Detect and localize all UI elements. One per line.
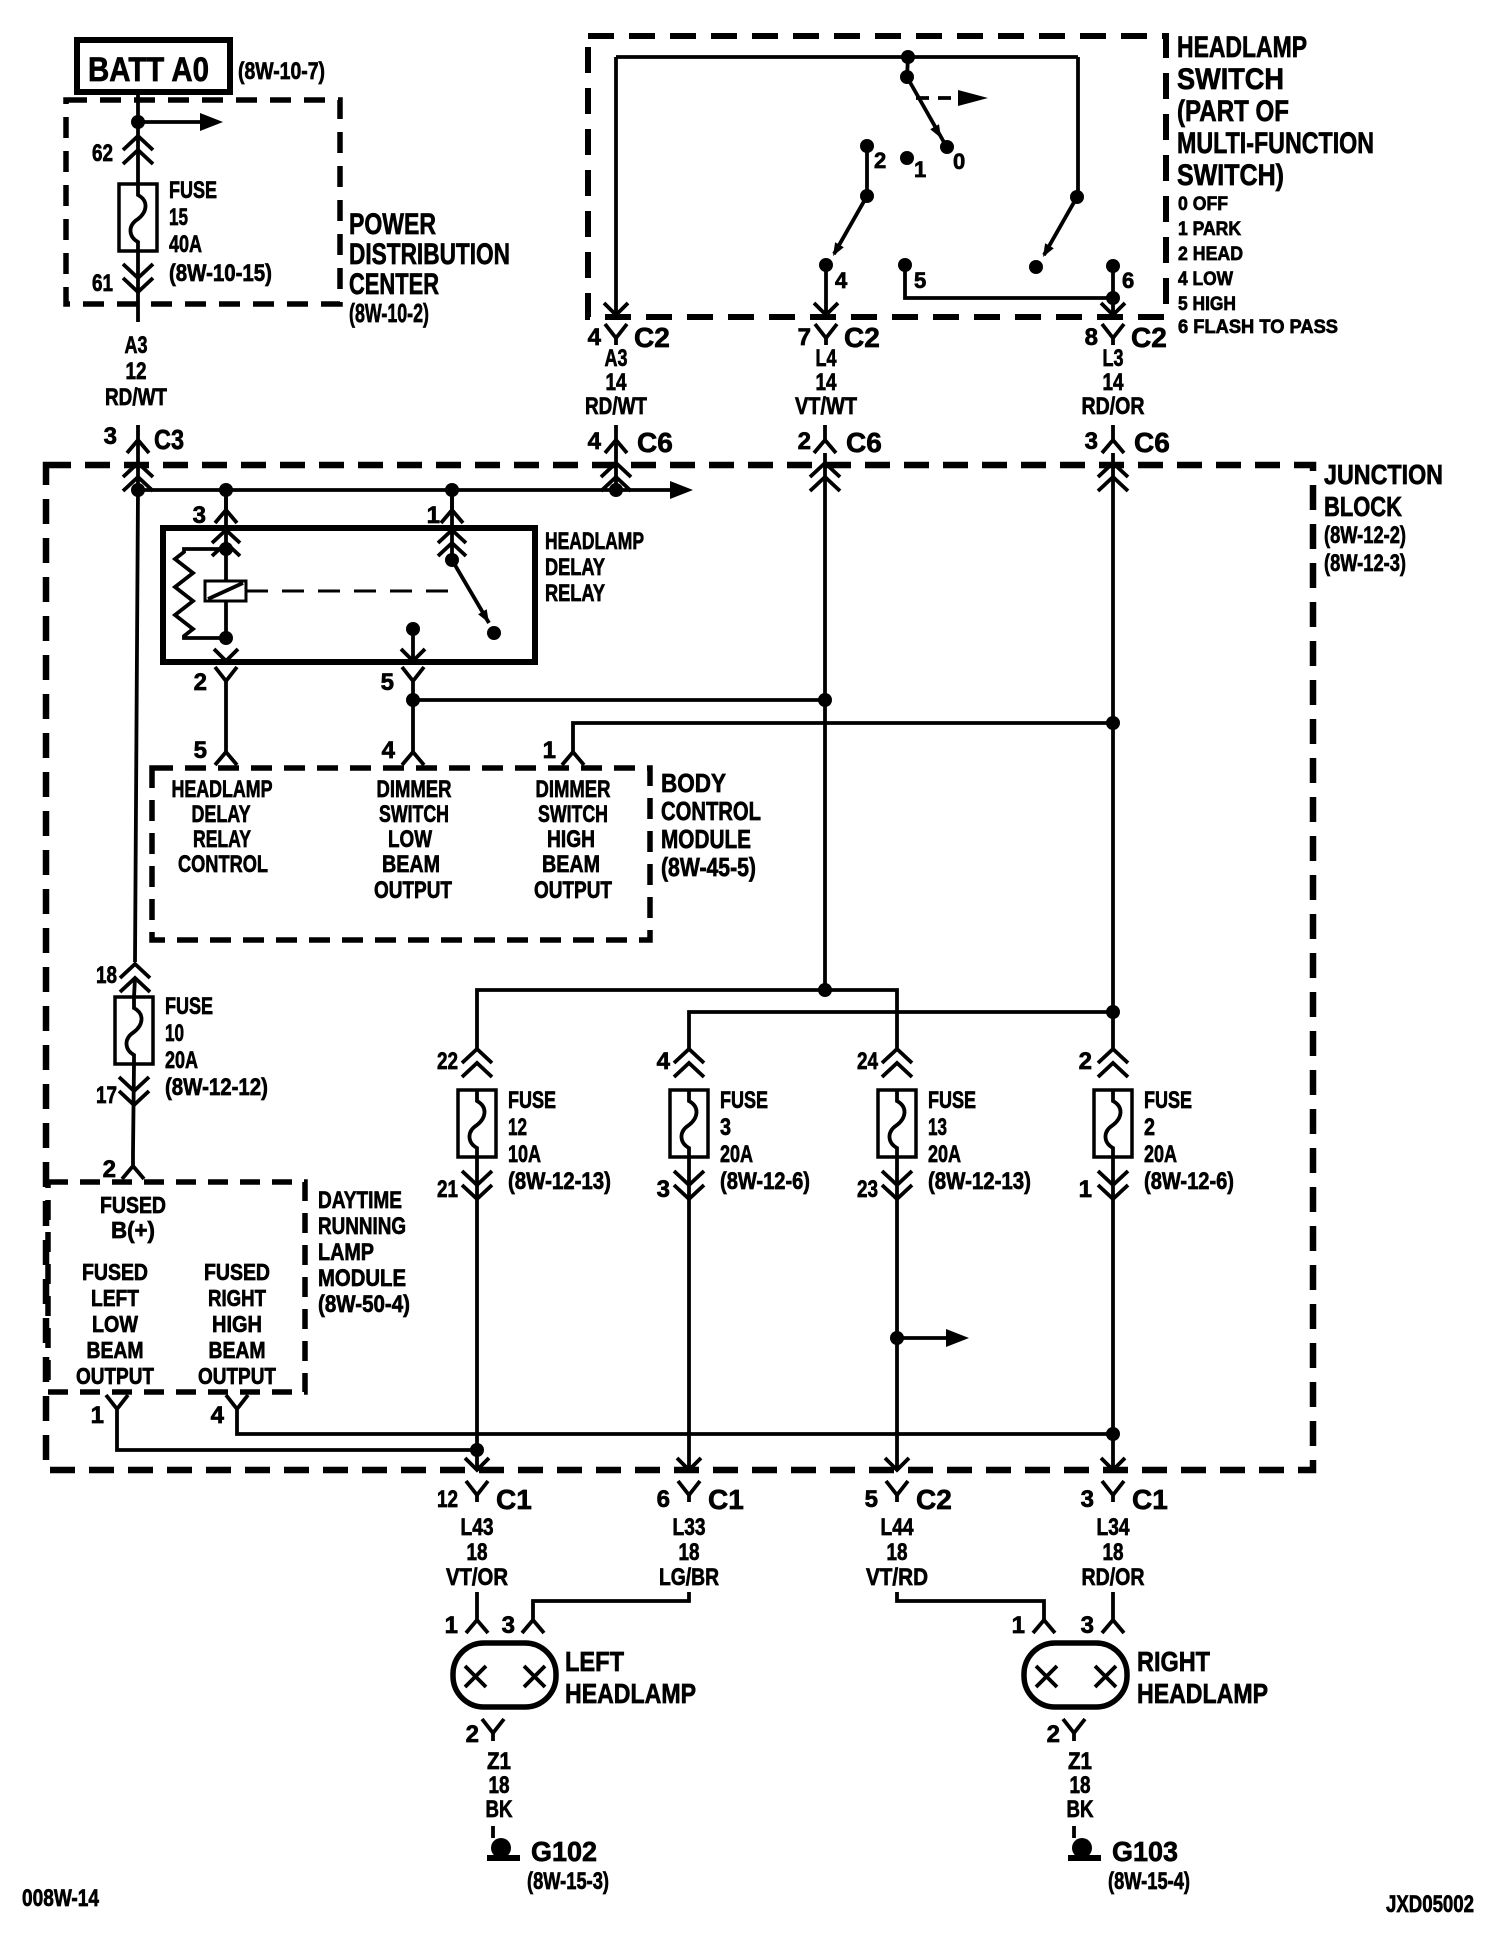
svg-text:(8W-10-2): (8W-10-2)	[349, 298, 429, 328]
svg-text:LOW: LOW	[388, 826, 432, 853]
svg-text:(8W-10-7): (8W-10-7)	[238, 58, 325, 85]
fuse 3	[670, 1090, 708, 1157]
svg-text:L43: L43	[461, 1514, 494, 1541]
svg-text:5: 5	[381, 669, 394, 696]
fuse 3 pin 3	[657, 1171, 704, 1203]
fuse 2 pin 1	[1079, 1171, 1128, 1203]
svg-text:BK: BK	[1067, 1796, 1095, 1823]
fuse 13 value labels	[928, 1087, 1031, 1195]
svg-text:C6: C6	[637, 427, 673, 458]
svg-text:C2: C2	[634, 322, 670, 353]
svg-text:1: 1	[445, 1612, 458, 1639]
svg-text:20A: 20A	[1144, 1141, 1177, 1168]
svg-text:SWITCH: SWITCH	[1177, 63, 1284, 96]
svg-text:1: 1	[1079, 1176, 1092, 1203]
relay U1 headlamp delay relay box	[163, 528, 535, 662]
wire: bus drop to relay pin 3	[224, 490, 228, 528]
wire label Z1 18 BK left	[486, 1748, 514, 1823]
svg-text:(8W-12-12): (8W-12-12)	[165, 1074, 268, 1101]
wire: fuse 12 output down to C1	[475, 1157, 479, 1469]
svg-text:2: 2	[798, 428, 811, 455]
svg-text:JUNCTION: JUNCTION	[1324, 459, 1443, 490]
relay contact dot normally open	[487, 626, 501, 640]
svg-text:23: 23	[857, 1176, 878, 1203]
wire label L3 14 RD/OR	[1082, 345, 1145, 420]
relay switch pivot dot	[445, 553, 459, 567]
svg-text:OUTPUT: OUTPUT	[374, 877, 452, 904]
svg-text:4: 4	[382, 737, 396, 764]
svg-text:L44: L44	[881, 1514, 915, 1541]
svg-text:BEAM: BEAM	[209, 1337, 266, 1363]
svg-text:L33: L33	[673, 1514, 706, 1541]
pin 18 chevrons up	[120, 964, 150, 992]
svg-text:C1: C1	[496, 1484, 532, 1515]
svg-text:3: 3	[104, 423, 117, 450]
relay pin 1 entry chevrons	[438, 530, 466, 556]
wire: stub to ground G102	[491, 1826, 495, 1838]
label HEADLAMP DELAY RELAY	[545, 528, 644, 607]
wire label L44 18 VT/RD	[866, 1514, 928, 1591]
left headlamp	[453, 1643, 556, 1707]
ground G103	[1068, 1838, 1101, 1858]
connector C2 pin 4	[588, 322, 670, 353]
node BATT A0	[77, 40, 230, 92]
wire: switch common feed top bus	[616, 55, 1078, 59]
svg-text:20A: 20A	[720, 1141, 753, 1168]
arrow: switch travel direction	[916, 90, 988, 106]
relay pin 3 entry chevrons	[212, 530, 240, 556]
svg-text:5: 5	[914, 268, 926, 293]
svg-text:FUSED: FUSED	[100, 1192, 166, 1218]
svg-text:1: 1	[543, 737, 556, 764]
junction dot battery feed	[131, 115, 145, 129]
svg-text:2: 2	[874, 148, 886, 173]
svg-text:MULTI-FUNCTION: MULTI-FUNCTION	[1177, 127, 1374, 160]
svg-text:14: 14	[1103, 369, 1125, 396]
svg-text:0 OFF: 0 OFF	[1178, 194, 1228, 215]
svg-text:BEAM: BEAM	[87, 1337, 144, 1363]
svg-text:LAMP: LAMP	[318, 1239, 374, 1266]
svg-text:G103: G103	[1112, 1836, 1178, 1867]
left headlamp pin 3 fork	[502, 1612, 544, 1639]
svg-text:18: 18	[887, 1539, 908, 1566]
switch wiper pivot dot	[900, 70, 914, 84]
svg-text:4: 4	[588, 324, 602, 351]
connector C6 pin 2	[798, 425, 882, 458]
wire: BCM pin 1 to C6 pin 3 drop	[573, 723, 1113, 738]
wire label A3 14 RD/WT	[585, 345, 647, 420]
svg-text:6: 6	[657, 1486, 670, 1513]
junction dot 5/6	[1106, 291, 1120, 305]
svg-text:RUNNING: RUNNING	[318, 1213, 406, 1240]
svg-text:OUTPUT: OUTPUT	[76, 1363, 154, 1389]
svg-text:RELAY: RELAY	[545, 580, 605, 607]
wire: low beam node to C6 pin 2 drop	[413, 698, 825, 702]
svg-text:(PART OF: (PART OF	[1177, 95, 1289, 128]
svg-text:(8W-12-13): (8W-12-13)	[508, 1168, 611, 1195]
svg-text:18: 18	[96, 962, 117, 989]
wire: C3 into junction block	[136, 440, 140, 490]
svg-text:2 HEAD: 2 HEAD	[1178, 244, 1243, 265]
svg-text:4: 4	[211, 1402, 225, 1429]
arrow at relay box edge pin 2	[214, 649, 238, 661]
wire: C6 pin 2 drop down	[823, 453, 827, 990]
junction dot bus at main feed	[131, 483, 145, 497]
fuse 13	[878, 1090, 916, 1157]
svg-text:20A: 20A	[928, 1141, 961, 1168]
fuse 12	[458, 1090, 496, 1157]
svg-text:1: 1	[91, 1402, 104, 1429]
contact 1 dot	[900, 151, 914, 165]
fuse 15 value labels	[169, 177, 272, 287]
svg-text:61: 61	[92, 270, 113, 297]
svg-text:1 PARK: 1 PARK	[1178, 219, 1241, 240]
svg-text:2: 2	[1144, 1114, 1155, 1141]
pin 62 chevrons up	[123, 136, 153, 164]
svg-text:40A: 40A	[169, 231, 202, 258]
wire: relay output to pin 5	[411, 629, 415, 661]
svg-text:RD/WT: RD/WT	[105, 384, 167, 411]
svg-text:4: 4	[588, 428, 602, 455]
svg-text:0: 0	[953, 149, 965, 174]
svg-text:HEADLAMP: HEADLAMP	[1137, 1678, 1268, 1709]
contact 5 dot	[898, 258, 912, 272]
relay switch arm	[452, 560, 489, 623]
wire: left drop to output 4	[614, 57, 618, 313]
svg-text:BLOCK: BLOCK	[1324, 491, 1402, 522]
svg-text:12: 12	[126, 358, 147, 385]
contact 6 dot	[1106, 259, 1120, 273]
svg-text:Z1: Z1	[487, 1748, 511, 1775]
relay coil element	[205, 581, 246, 601]
svg-text:RD/WT: RD/WT	[585, 393, 647, 420]
junction dot relay coil bottom	[219, 631, 233, 645]
wire: BATT A0 down into PDC to fuse 15	[136, 92, 140, 184]
arrow into box edge col 4	[604, 303, 628, 315]
svg-text:DISTRIBUTION: DISTRIBUTION	[349, 238, 510, 271]
svg-text:DELAY: DELAY	[192, 801, 251, 828]
svg-text:FUSE: FUSE	[508, 1087, 556, 1114]
wire: pivot stub	[907, 57, 908, 77]
right headlamp	[1024, 1643, 1127, 1707]
svg-text:(8W-12-3): (8W-12-3)	[1324, 550, 1406, 577]
svg-text:10A: 10A	[508, 1141, 541, 1168]
junction dot fuse 13 output tap	[890, 1331, 904, 1345]
wire: fuse 15 to connector C3	[136, 251, 140, 322]
wire: contact 6 down	[1111, 266, 1115, 313]
arrow at junction block edge col 3	[1101, 1458, 1125, 1470]
ground G102	[487, 1838, 520, 1858]
svg-text:(8W-12-2): (8W-12-2)	[1324, 522, 1406, 549]
connector C1 pin 6	[657, 1481, 744, 1515]
svg-text:VT/OR: VT/OR	[446, 1564, 508, 1591]
svg-text:(8W-10-15): (8W-10-15)	[169, 260, 272, 287]
DRL pin 2 fork	[103, 1152, 144, 1183]
junction dot high beam feed to fuses	[1106, 1005, 1120, 1019]
pin 61 chevrons down	[123, 264, 153, 292]
svg-text:(8W-45-5): (8W-45-5)	[661, 852, 756, 882]
wire: L44 jog to right headlamp pin 1	[897, 1592, 1044, 1620]
wire: into fuse 10	[134, 978, 135, 997]
svg-text:CENTER: CENTER	[349, 268, 439, 301]
svg-text:3: 3	[1085, 428, 1098, 455]
svg-text:RIGHT: RIGHT	[208, 1285, 266, 1311]
fuse 2 value labels	[1144, 1087, 1234, 1195]
svg-text:2: 2	[1047, 1721, 1060, 1748]
svg-text:B(+): B(+)	[111, 1217, 155, 1243]
fuse 2 pin 2	[1079, 1048, 1128, 1077]
svg-text:LOW: LOW	[92, 1311, 138, 1337]
svg-text:3: 3	[193, 502, 206, 529]
arrow at junction block edge col 6	[677, 1458, 701, 1470]
svg-text:(8W-15-3): (8W-15-3)	[527, 1868, 609, 1895]
svg-text:008W-14: 008W-14	[22, 1885, 100, 1912]
junction block entry chevrons at C3	[123, 463, 153, 491]
svg-text:CONTROL: CONTROL	[661, 796, 761, 826]
wire: L33 jog to left headlamp pin 3	[533, 1592, 689, 1620]
svg-text:DIMMER: DIMMER	[536, 776, 611, 803]
right headlamp pin 1 fork	[1012, 1612, 1055, 1639]
label LEFT HEADLAMP	[565, 1646, 696, 1709]
wire: relay pin 5 to BCM pin 4	[411, 689, 415, 738]
wire: L34 stub to right headlamp pin 3	[1111, 1592, 1115, 1620]
arrow: feed continues right	[138, 113, 223, 131]
svg-text:22: 22	[437, 1048, 458, 1075]
svg-text:DELAY: DELAY	[545, 554, 605, 581]
right headlamp pin 2 fork	[1047, 1719, 1085, 1748]
svg-text:6 FLASH TO PASS: 6 FLASH TO PASS	[1178, 317, 1338, 338]
BCM pin 4 fork	[382, 737, 424, 765]
svg-text:DIMMER: DIMMER	[377, 776, 452, 803]
svg-text:C6: C6	[846, 427, 882, 458]
svg-text:5: 5	[194, 737, 207, 764]
wire: bus drop to relay pin 1	[450, 490, 454, 528]
svg-text:L34: L34	[1097, 1514, 1131, 1541]
wire: right drop to wiper pivot	[1076, 57, 1080, 197]
arrow at junction block edge col 12	[465, 1458, 489, 1470]
daytime running lamp module box	[48, 1182, 305, 1392]
wire label L33 18 LG/BR	[659, 1514, 719, 1591]
svg-text:62: 62	[92, 140, 113, 167]
label FUSED B(+)	[100, 1192, 166, 1243]
svg-text:FUSED: FUSED	[204, 1259, 270, 1285]
wire label L34 18 RD/OR	[1082, 1514, 1145, 1591]
connector C6 pin 4	[588, 425, 673, 458]
wire: high beam fuse feed rail	[689, 1012, 1113, 1048]
svg-text:6: 6	[1122, 268, 1134, 293]
wire label L4 14 VT/WT	[795, 345, 857, 420]
junction block box	[46, 465, 1313, 1470]
svg-text:12: 12	[437, 1486, 458, 1513]
svg-text:HIGH: HIGH	[212, 1311, 262, 1337]
fuse 12 pin 21	[437, 1171, 492, 1203]
BCM pin 5 fork	[194, 737, 237, 765]
svg-text:FUSE: FUSE	[1144, 1087, 1192, 1114]
label BCM dimmer switch low beam output	[374, 776, 452, 904]
svg-text:1: 1	[427, 502, 440, 529]
svg-text:VT/RD: VT/RD	[866, 1564, 928, 1591]
svg-text:10: 10	[165, 1020, 184, 1047]
label BODY CONTROL MODULE	[661, 768, 761, 882]
fuse 13 pin 24	[857, 1048, 912, 1077]
svg-text:LG/BR: LG/BR	[659, 1564, 719, 1591]
label JUNCTION BLOCK	[1324, 459, 1443, 577]
svg-text:21: 21	[437, 1176, 458, 1203]
fuse 13 pin 23	[857, 1171, 912, 1203]
legend switch positions	[1178, 194, 1338, 338]
fuse 10	[115, 997, 153, 1064]
svg-text:LEFT: LEFT	[91, 1285, 139, 1311]
svg-text:Z1: Z1	[1068, 1748, 1092, 1775]
resistor: relay coil resistor	[175, 549, 226, 638]
wire: C6 pin 3 drop down	[1111, 453, 1115, 1012]
svg-text:L4: L4	[816, 345, 837, 372]
svg-text:RIGHT: RIGHT	[1137, 1646, 1210, 1677]
svg-text:FUSE: FUSE	[165, 993, 213, 1020]
svg-text:RD/OR: RD/OR	[1082, 1564, 1145, 1591]
label RIGHT HEADLAMP	[1137, 1646, 1268, 1709]
junction dot low beam feed to fuses	[818, 983, 832, 997]
svg-text:18: 18	[467, 1539, 488, 1566]
fuse 2	[1094, 1090, 1132, 1157]
wire: main feed bus inside junction block	[138, 488, 670, 492]
switch arm head position	[833, 196, 867, 256]
wire: contact 5 to junction under 6	[905, 265, 1113, 298]
wire: main feed down to fuse 10	[135, 490, 138, 962]
svg-text:18: 18	[489, 1772, 510, 1799]
svg-text:4: 4	[835, 268, 848, 293]
svg-text:12: 12	[508, 1114, 527, 1141]
svg-text:MODULE: MODULE	[661, 824, 751, 854]
svg-text:(8W-12-6): (8W-12-6)	[1144, 1168, 1234, 1195]
switch high beam pivot dot	[1070, 190, 1084, 204]
relay contact dot output	[406, 622, 420, 636]
junction dot on top bus	[901, 50, 915, 64]
svg-text:3: 3	[1081, 1612, 1094, 1639]
svg-text:20A: 20A	[165, 1047, 198, 1074]
headlamp switch box	[588, 36, 1166, 317]
svg-text:1: 1	[1012, 1612, 1025, 1639]
wire: fuse 10 to DRL pin 2	[133, 1064, 134, 1152]
fuse 15	[119, 184, 157, 251]
contact 0 dot	[940, 140, 954, 154]
BCM pin 1 fork	[543, 737, 584, 765]
left headlamp pin 2 fork	[466, 1719, 504, 1748]
svg-text:17: 17	[96, 1082, 117, 1109]
svg-text:HEADLAMP: HEADLAMP	[172, 776, 273, 803]
wire: DRL pin 1 left low beam output to C1 pin 12	[117, 1417, 477, 1450]
right headlamp pin 3 fork	[1081, 1612, 1124, 1639]
svg-text:15: 15	[169, 204, 188, 231]
svg-text:A3: A3	[125, 332, 148, 359]
svg-text:FUSED: FUSED	[82, 1259, 148, 1285]
body control module box	[152, 768, 650, 940]
svg-text:C2: C2	[916, 1484, 952, 1515]
svg-text:VT/WT: VT/WT	[795, 393, 857, 420]
wire: C6 pin4 into junction block bus	[614, 440, 618, 490]
svg-text:BEAM: BEAM	[542, 851, 600, 878]
svg-text:HIGH: HIGH	[547, 826, 595, 853]
svg-text:5: 5	[865, 1486, 878, 1513]
svg-text:POWER: POWER	[349, 208, 436, 241]
label FUSED RIGHT HIGH BEAM OUTPUT	[198, 1259, 276, 1389]
svg-text:4: 4	[657, 1048, 671, 1075]
wire: relay coil feed	[224, 528, 228, 638]
svg-text:L3: L3	[1103, 345, 1124, 372]
fuse 12 value labels	[508, 1087, 611, 1195]
wire label A3 12 RD/WT	[105, 332, 167, 411]
svg-text:14: 14	[816, 369, 838, 396]
svg-text:C2: C2	[844, 322, 880, 353]
svg-text:SWITCH: SWITCH	[379, 801, 449, 828]
svg-text:CONTROL: CONTROL	[178, 851, 268, 878]
label BCM dimmer switch high beam output	[534, 776, 612, 904]
svg-text:RELAY: RELAY	[193, 826, 251, 853]
relay pin 1 fork	[427, 497, 463, 529]
left headlamp pin 1 fork	[445, 1612, 488, 1639]
svg-text:OUTPUT: OUTPUT	[534, 877, 612, 904]
svg-text:4 LOW: 4 LOW	[1178, 269, 1233, 290]
switch arm off position	[907, 77, 945, 144]
connector C6 pin 3	[1085, 425, 1170, 458]
svg-text:7: 7	[798, 324, 811, 351]
DRL pin 4 fork	[211, 1395, 248, 1429]
wire: fuse 13 output down to C2	[895, 1157, 899, 1469]
junction block entry chevrons at C6 pin2	[810, 463, 840, 491]
svg-text:8: 8	[1085, 324, 1098, 351]
svg-text:A3: A3	[605, 345, 628, 372]
svg-text:OUTPUT: OUTPUT	[198, 1363, 276, 1389]
fuse 3 value labels	[720, 1087, 810, 1195]
svg-text:HEADLAMP: HEADLAMP	[565, 1678, 696, 1709]
svg-text:SWITCH: SWITCH	[538, 801, 608, 828]
wire label Z1 18 BK right	[1067, 1748, 1095, 1823]
svg-text:18: 18	[679, 1539, 700, 1566]
arrow: fuse 13 output continues right	[897, 1329, 969, 1347]
junction dot low beam node	[406, 693, 420, 707]
svg-text:HEADLAMP: HEADLAMP	[1177, 31, 1307, 64]
svg-text:(8W-15-4): (8W-15-4)	[1108, 1868, 1190, 1895]
svg-text:3: 3	[720, 1114, 731, 1141]
svg-text:FUSE: FUSE	[169, 177, 217, 204]
power distribution center box	[66, 100, 340, 304]
relay pin 5 fork	[381, 667, 424, 696]
svg-text:2: 2	[103, 1156, 116, 1183]
svg-text:2: 2	[466, 1721, 479, 1748]
junction dot DRL pin4 join	[1106, 1427, 1120, 1441]
lower pivot dot	[860, 189, 874, 203]
svg-text:C2: C2	[1131, 322, 1167, 353]
contact 4 dot	[819, 258, 833, 272]
svg-text:24: 24	[857, 1048, 879, 1075]
wire label L43 18 VT/OR	[446, 1514, 508, 1591]
svg-text:C3: C3	[154, 424, 184, 455]
wire: L43 stub to left headlamp pin 1	[475, 1592, 479, 1620]
junction dot bus at relay pin 1	[445, 483, 459, 497]
dashed mechanical link	[246, 590, 456, 593]
connector C1 pin 3	[1081, 1481, 1168, 1515]
junction dot bus at C6 pin 4	[609, 483, 623, 497]
svg-text:FUSE: FUSE	[720, 1087, 768, 1114]
svg-text:2: 2	[194, 669, 207, 696]
wiper contact dot	[1029, 260, 1043, 274]
svg-text:JXD05002: JXD05002	[1386, 1891, 1474, 1918]
svg-text:18: 18	[1103, 1539, 1124, 1566]
label HEADLAMP SWITCH (PART OF MULTI-FUNCTION SWITCH)	[1177, 31, 1374, 192]
svg-text:(8W-12-6): (8W-12-6)	[720, 1168, 810, 1195]
label FUSED LEFT LOW BEAM OUTPUT	[76, 1259, 154, 1389]
wire: stub to ground G103	[1072, 1826, 1076, 1838]
